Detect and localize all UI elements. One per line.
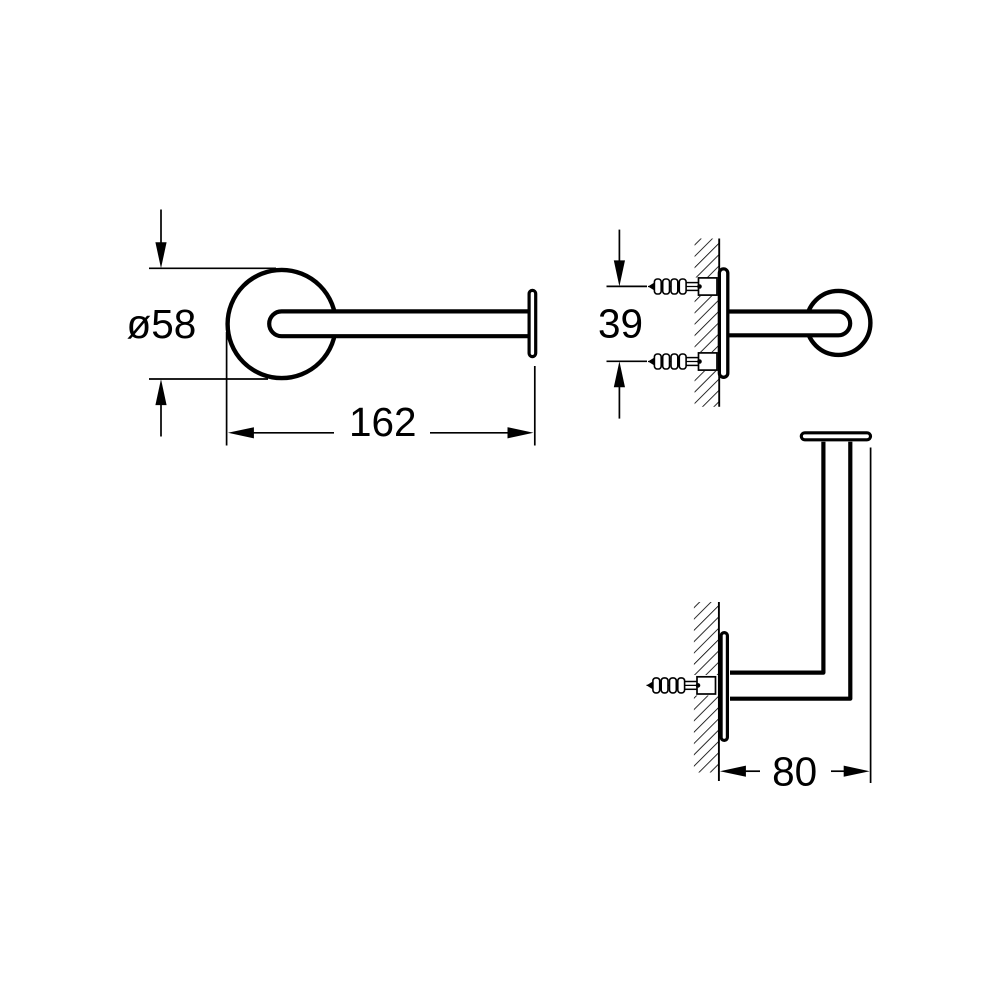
- svg-text:39: 39: [598, 301, 643, 347]
- svg-text:ø58: ø58: [127, 301, 197, 347]
- svg-text:80: 80: [772, 749, 817, 795]
- svg-text:162: 162: [349, 399, 417, 445]
